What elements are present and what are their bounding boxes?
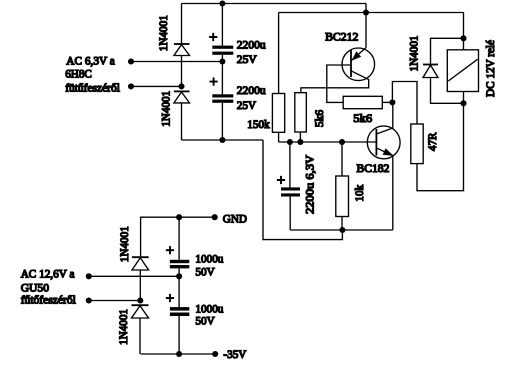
wire negative jog to emitter rail bbox=[263, 140, 342, 240]
transistor Q1 emitter arrow bbox=[353, 52, 361, 60]
transistor Q2 BC182 circle bbox=[367, 126, 400, 159]
wire C5 top lead bbox=[289, 142, 291, 187]
wire diode column mid bottom supply bbox=[139, 270, 141, 301]
diode D3 1N4001 cathode bar bbox=[132, 256, 149, 258]
wire flyback diode bottom bbox=[431, 78, 464, 104]
resistor R2 5k6 vertical bbox=[295, 93, 307, 132]
capacitor C3 1000u 50V plates bbox=[170, 260, 189, 269]
svg-text:1N4001: 1N4001 bbox=[117, 226, 131, 262]
relay K1 diagonal bbox=[448, 59, 477, 81]
wire 10k top lead bbox=[341, 142, 343, 176]
relay K1 coil box bbox=[447, 50, 478, 92]
svg-text:2200u: 2200u bbox=[237, 38, 266, 52]
capacitor C2 2200u 25V plates bbox=[212, 94, 233, 102]
svg-text:AC 6,3V a: AC 6,3V a bbox=[66, 53, 115, 67]
svg-text:10k: 10k bbox=[352, 185, 366, 202]
wire -35V rail bbox=[141, 353, 216, 355]
wire collector junction to 47R bbox=[392, 82, 417, 125]
svg-text:5k6: 5k6 bbox=[353, 111, 372, 125]
svg-text:AC 12,6V a: AC 12,6V a bbox=[21, 267, 75, 281]
diode D1 1N4001 cathode bar bbox=[174, 43, 190, 45]
svg-text:25V: 25V bbox=[237, 52, 257, 66]
svg-text:fűtőfeszéről: fűtőfeszéről bbox=[21, 292, 77, 306]
node rail A-B junction bbox=[363, 9, 369, 15]
wire diode column bottom bbox=[181, 103, 183, 140]
wire emitter rail bbox=[290, 229, 393, 231]
node cap column top junction bbox=[219, 0, 225, 6]
transistor Q1 collector path bbox=[301, 71, 369, 93]
diode D5 1N4001 cathode bar bbox=[423, 64, 438, 66]
svg-text:-35V: -35V bbox=[223, 347, 246, 361]
wire diode column mid bbox=[181, 56, 183, 87]
node D1-D2 junction bbox=[178, 83, 184, 89]
node relay top junction bbox=[460, 35, 466, 41]
wire BC212 emitter riser bbox=[365, 4, 367, 48]
node rail C 5k6 branch bbox=[297, 139, 303, 145]
svg-text:GND: GND bbox=[223, 211, 248, 225]
wire C1 bottom lead bbox=[221, 55, 223, 62]
wire C2 bottom lead bbox=[221, 103, 223, 140]
resistor R4 10k bbox=[336, 176, 349, 217]
node emitter rail 10k junction bbox=[339, 227, 345, 233]
node -35V cap junction bbox=[176, 351, 182, 357]
svg-text:6H8C: 6H8C bbox=[65, 67, 92, 81]
node rail C 10k branch bbox=[339, 139, 345, 145]
svg-text:BC212: BC212 bbox=[325, 30, 358, 44]
svg-text:BC182: BC182 bbox=[357, 161, 390, 175]
transistor Q1 base bar bbox=[350, 50, 352, 77]
capacitor C1 2200u 25V plates bbox=[212, 46, 233, 55]
node C3-C4 junction bbox=[176, 273, 182, 279]
wire rail A top bbox=[182, 3, 367, 5]
capacitor C4 plus sign bbox=[166, 294, 174, 302]
wire 150k top lead bbox=[278, 13, 280, 94]
wire rail C bbox=[279, 141, 377, 143]
svg-text:47R: 47R bbox=[425, 132, 439, 151]
node C1-C2 junction bbox=[219, 58, 225, 64]
wire GND rail bbox=[141, 217, 215, 257]
node rail C cap branch bbox=[287, 139, 293, 145]
wire C2 top lead bbox=[221, 62, 223, 95]
wire rail B bbox=[279, 12, 464, 14]
svg-text:5k6: 5k6 bbox=[312, 110, 326, 128]
node AC1 bottom terminal bbox=[86, 273, 92, 279]
svg-text:2200u 6,3V: 2200u 6,3V bbox=[303, 155, 317, 214]
capacitor C1 plus sign bbox=[209, 33, 217, 41]
svg-text:25V: 25V bbox=[237, 98, 257, 112]
wire C4 top lead bbox=[178, 276, 180, 307]
transistor Q1 BC212 circle bbox=[342, 48, 375, 81]
node AC1 terminal bbox=[128, 58, 134, 64]
diode D4 1N4001 triangle bbox=[132, 306, 149, 318]
wire C3 top lead bbox=[178, 217, 180, 260]
diode D4 1N4001 cathode bar bbox=[132, 304, 149, 306]
diode D3 1N4001 triangle bbox=[132, 258, 149, 270]
wire AC 12,6V line 1 bbox=[89, 275, 179, 277]
svg-text:1000u: 1000u bbox=[195, 251, 223, 265]
wire 5k6 bottom lead bbox=[299, 132, 301, 142]
wire Q1 base to 5k6h bbox=[327, 65, 351, 102]
svg-text:1N4001: 1N4001 bbox=[406, 36, 420, 72]
wire 150k bottom lead bbox=[278, 132, 280, 142]
diode D1 1N4001 triangle bbox=[174, 45, 190, 56]
wire 5k6h right lead bbox=[382, 101, 392, 103]
capacitor C5 plus sign bbox=[277, 176, 285, 184]
node AC2 terminal bbox=[128, 83, 134, 89]
svg-text:1N4001: 1N4001 bbox=[159, 91, 173, 127]
wire C5 bottom lead bbox=[289, 197, 291, 231]
diode D2 1N4001 triangle bbox=[174, 92, 190, 103]
wire 10k bottom lead bbox=[341, 217, 343, 231]
capacitor C3 plus sign bbox=[166, 246, 174, 254]
node relay bottom junction bbox=[460, 100, 466, 106]
node doubler bottom junction bbox=[219, 137, 225, 143]
wire C4 bottom lead bbox=[178, 316, 180, 354]
node D3-D4 junction bbox=[137, 297, 143, 303]
capacitor C2 plus sign bbox=[210, 78, 218, 86]
diode D5 1N4001 triangle bbox=[423, 65, 438, 77]
svg-text:2200u: 2200u bbox=[237, 83, 266, 97]
node -35V terminal bbox=[212, 351, 218, 357]
transistor Q1 emitter diagonal bbox=[351, 48, 366, 61]
resistor R1 150k bbox=[272, 94, 284, 133]
wire diode column to -35V rail bbox=[139, 318, 141, 354]
transistor Q2 emitter bbox=[376, 148, 392, 230]
resistor R3 5k6 horizontal bbox=[343, 96, 382, 108]
wire AC 6,3V line 1 bbox=[131, 61, 222, 63]
wire 47R bottom return bbox=[417, 103, 464, 190]
svg-text:1N4001: 1N4001 bbox=[116, 309, 130, 345]
capacitor C5 2200u 6,3V plates bbox=[281, 187, 300, 196]
diode D2 1N4001 cathode bar bbox=[174, 90, 190, 92]
wire doubler bottom rail bbox=[182, 139, 264, 141]
node AC2 bottom terminal bbox=[86, 297, 92, 303]
svg-text:50V: 50V bbox=[195, 314, 215, 328]
node GND cap junction bbox=[176, 214, 182, 220]
wire top diode column riser bbox=[181, 4, 183, 45]
svg-text:fütűfeszéről: fütűfeszéről bbox=[65, 81, 120, 95]
resistor R5 47R bbox=[411, 124, 423, 164]
wire AC 6,3V line 2 bbox=[131, 85, 182, 87]
wire AC 12,6V line 2 bbox=[89, 300, 141, 302]
svg-text:DC 12V relé: DC 12V relé bbox=[483, 40, 497, 97]
transistor Q2 emitter arrow bbox=[383, 149, 392, 155]
node BC182 collector junction bbox=[389, 99, 395, 105]
transistor Q2 base bar bbox=[375, 129, 377, 156]
transistor Q2 collector bbox=[376, 102, 392, 134]
svg-text:1N4001: 1N4001 bbox=[156, 15, 170, 51]
wire flyback diode top bbox=[431, 38, 464, 64]
svg-text:150k: 150k bbox=[247, 117, 269, 131]
wire relay riser bbox=[463, 13, 465, 50]
svg-text:50V: 50V bbox=[195, 265, 215, 279]
wire C3 bottom lead bbox=[178, 268, 180, 276]
node GND terminal bbox=[212, 214, 218, 220]
wire cap column top lead bbox=[221, 4, 223, 46]
capacitor C4 1000u 50V plates bbox=[170, 307, 189, 316]
wire relay bottom lead bbox=[463, 92, 465, 104]
